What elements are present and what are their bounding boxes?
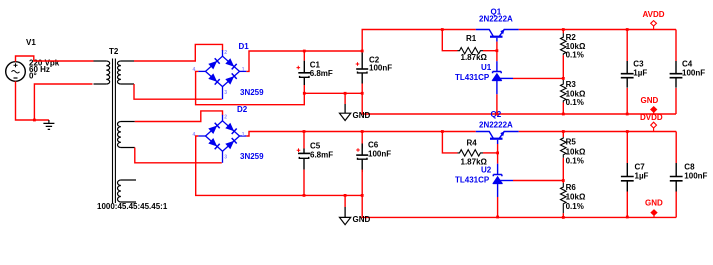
resistor R6 zigzag	[561, 183, 567, 213]
wire R1 to Q1 base junction	[483, 50, 497, 52]
resistor R5 top lead	[562, 132, 564, 138]
svg-text:C8: C8	[684, 162, 695, 171]
wire R4 to Q2 base junction	[483, 152, 498, 154]
wire D1 pin1 to positive rail	[246, 51, 362, 71]
svg-text:U1: U1	[481, 63, 492, 72]
wire Q2 base down to U2	[497, 153, 499, 164]
wire R1 drop from rail	[442, 30, 457, 51]
svg-text:2N2222A: 2N2222A	[479, 120, 513, 129]
resistor R4 zigzag	[458, 150, 484, 156]
diode D1 c	[208, 73, 217, 82]
T2 secondary 3 coil (unconnected stubs)	[121, 180, 136, 202]
T2 primary coil	[94, 61, 107, 84]
T2 secondary 2 coil	[121, 122, 135, 148]
svg-text:1µF: 1µF	[635, 172, 649, 181]
capacitor C8 plates	[670, 177, 683, 181]
svg-text:GND: GND	[353, 215, 371, 224]
C2 polarity plus	[356, 62, 360, 66]
V1 plus sign	[14, 63, 18, 67]
resistor R3 top lead	[562, 78, 564, 80]
svg-text:1000:45.45:45.45:1: 1000:45.45:45.45:1	[97, 202, 168, 211]
junction V1 return	[33, 119, 36, 122]
svg-text:3N259: 3N259	[240, 152, 264, 161]
svg-text:C4: C4	[682, 59, 693, 68]
diode D2 c	[208, 138, 217, 147]
wire negative rail section1	[304, 93, 676, 114]
svg-text:100nF: 100nF	[369, 63, 392, 72]
R2 bottom lead	[562, 55, 564, 78]
capacitor C2 plates	[356, 68, 368, 70]
svg-text:100nF: 100nF	[684, 172, 707, 181]
svg-text:GND: GND	[353, 111, 371, 120]
pin stub D2.1	[240, 135, 247, 137]
V1 sine squiggle	[12, 71, 20, 74]
pin stub D2.4	[198, 135, 205, 137]
ground symbol GND1 triangle	[340, 113, 351, 120]
svg-text:100nF: 100nF	[368, 150, 391, 159]
diode D2 a	[208, 126, 217, 135]
pin stub D1.4	[198, 70, 205, 72]
transistor Q1 base lead	[496, 38, 498, 42]
wire R4 drop from rail	[442, 132, 457, 153]
capacitor C4 plates	[670, 74, 683, 78]
T2 core lines	[113, 59, 116, 204]
wire D1 pin4 to negative rail	[196, 71, 305, 104]
wire Q2 emitter rail to DVDD frame	[519, 131, 677, 133]
svg-text:0.1%: 0.1%	[566, 202, 584, 211]
U2 reference tab	[498, 180, 513, 182]
capacitor C1 plates	[298, 72, 310, 74]
transistor Q1 base bar	[490, 36, 503, 38]
wire D2 pin1 to positive rail section2	[246, 132, 475, 137]
capacitor C2 leads	[361, 53, 363, 70]
pin stub D2.2	[222, 115, 224, 121]
wire Q1 base down to U1	[496, 51, 498, 62]
bridge rectifier D1 3N259 diamond outline	[206, 56, 240, 86]
svg-text:D2: D2	[237, 105, 248, 114]
svg-text:1µF: 1µF	[633, 68, 647, 77]
wire V1 minus down and to ground	[16, 81, 49, 120]
pin stub D1.2	[222, 50, 224, 56]
wire secondary1 bottom to D1 pin3	[134, 84, 222, 99]
wire V1 plus to transformer primary top	[16, 56, 94, 62]
svg-text:3N259: 3N259	[240, 88, 264, 97]
wire right frame down (C8 column)	[675, 132, 677, 164]
capacitor C3 leads	[626, 30, 628, 62]
capacitor C1 leads	[303, 51, 305, 61]
U2 anode lead	[497, 183, 499, 197]
U1 anode bar	[492, 79, 502, 81]
transistor Q2 emitter with arrow	[499, 132, 518, 139]
diode D1 b	[225, 58, 234, 66]
C5 polarity plus	[297, 148, 301, 152]
T2 secondary 1 coil	[121, 61, 134, 84]
svg-text:0.1%: 0.1%	[566, 98, 584, 107]
shunt regulator U1 cathode lead	[496, 61, 498, 71]
bridge rectifier D2 3N259 diamond outline	[206, 121, 240, 151]
diode D2 d	[225, 141, 234, 150]
capacitor C6 plates	[356, 154, 368, 156]
capacitor C6 leads	[361, 132, 363, 149]
U2 anode bar	[493, 182, 503, 184]
svg-text:C5: C5	[310, 141, 321, 150]
svg-text:GND: GND	[645, 199, 663, 208]
transistor Q2 base lead	[497, 140, 499, 144]
wire transformer primary bottom return	[34, 84, 92, 120]
pin stub D1.1	[240, 70, 247, 72]
svg-text:3: 3	[224, 90, 227, 96]
wire secondary1 top to D1 pin2	[134, 44, 223, 61]
diode D1 d	[225, 76, 234, 85]
svg-text:TL431CP: TL431CP	[455, 176, 490, 185]
svg-text:4: 4	[193, 67, 196, 73]
wire negative rail section2 to gnd run	[362, 195, 676, 217]
net connector GND (section2) filled diamond	[651, 210, 657, 216]
U1 reference tab	[497, 77, 513, 79]
diode D2 b	[225, 123, 234, 132]
C6 polarity plus	[356, 148, 360, 152]
net connector DVDD diamond	[651, 122, 657, 128]
R5 bottom lead	[562, 158, 564, 181]
svg-text:10kΩ: 10kΩ	[566, 193, 586, 202]
svg-text:1: 1	[242, 67, 245, 73]
ground symbol GND2 triangle	[340, 217, 351, 224]
transistor Q2 collector lead	[476, 132, 494, 139]
net connector AVDD diamond	[651, 21, 657, 26]
resistor R2 zigzag	[561, 33, 567, 55]
resistor R5 zigzag	[561, 137, 567, 158]
wire Q1 emitter rail to AVDD frame	[519, 29, 676, 31]
wire right frame down (C4 column)	[675, 30, 677, 62]
svg-text:10kΩ: 10kΩ	[566, 147, 586, 156]
R6 bottom lead	[562, 213, 564, 217]
capacitor C5 plates	[298, 152, 310, 154]
wire secondary2 bottom to D2 pin3	[135, 148, 222, 163]
svg-text:GND: GND	[641, 96, 659, 105]
source V1 circle	[6, 62, 26, 82]
svg-text:D1: D1	[239, 42, 250, 51]
svg-text:U2: U2	[481, 166, 492, 175]
R3 bottom lead	[562, 103, 564, 115]
U2 anode triangle	[493, 177, 502, 184]
wire positive rail step up section1	[362, 30, 476, 52]
svg-text:0.1%: 0.1%	[566, 157, 584, 166]
svg-text:V1: V1	[26, 38, 36, 47]
svg-text:10kΩ: 10kΩ	[566, 89, 586, 98]
ground symbol GND2 stem	[344, 195, 346, 207]
svg-text:C3: C3	[633, 59, 644, 68]
svg-text:100nF: 100nF	[682, 68, 705, 77]
svg-text:R3: R3	[566, 80, 577, 89]
capacitor C3 plates	[621, 74, 634, 78]
svg-text:0.1%: 0.1%	[566, 50, 584, 59]
svg-text:2N2222A: 2N2222A	[479, 15, 513, 24]
capacitor C7 leads	[626, 132, 628, 164]
svg-text:DVDD: DVDD	[640, 113, 663, 122]
svg-text:2: 2	[224, 50, 227, 56]
U2 cathode bar	[493, 175, 502, 177]
svg-text:6.8mF: 6.8mF	[310, 151, 333, 160]
wire D2 pin4 to negative rail section2	[196, 136, 363, 195]
resistor R3 zigzag	[561, 80, 567, 103]
capacitor C5 leads	[303, 132, 305, 149]
wire U2 ref to divider	[513, 180, 563, 182]
resistor R1 zigzag	[458, 48, 484, 54]
svg-text:R5: R5	[566, 138, 577, 147]
pin stub D1.3	[222, 87, 224, 100]
svg-text:2: 2	[224, 114, 227, 120]
U1 anode triangle	[492, 74, 501, 81]
net connector GND (section1) filled diamond	[651, 107, 657, 113]
svg-text:C7: C7	[635, 162, 646, 171]
svg-text:R1: R1	[466, 34, 477, 43]
svg-text:3: 3	[224, 154, 227, 160]
svg-text:1.87kΩ: 1.87kΩ	[461, 53, 488, 62]
transistor Q2 base bar	[490, 138, 503, 140]
svg-text:1: 1	[242, 132, 245, 138]
transistor Q1 collector lead	[476, 30, 494, 37]
capacitor C7 plates	[621, 177, 634, 181]
resistor R6 top lead	[562, 181, 564, 184]
transistor Q1 emitter with arrow	[499, 30, 519, 37]
svg-text:TL431CP: TL431CP	[455, 73, 490, 82]
diode D1 a	[208, 61, 217, 70]
ground (3-bar) at source	[48, 120, 50, 123]
U1 anode lead	[496, 80, 498, 94]
svg-text:C6: C6	[368, 140, 379, 149]
wire secondary2 top to D2 pin2	[135, 111, 223, 122]
pin stub D2.3	[222, 151, 224, 163]
svg-text:AVDD: AVDD	[643, 10, 665, 19]
wire U1 ref to divider	[513, 77, 563, 79]
resistor R2 top lead	[562, 30, 564, 34]
U1 cathode bar	[493, 72, 502, 74]
V1 minus sign	[14, 77, 18, 79]
svg-text:R4: R4	[467, 139, 478, 148]
svg-text:R2: R2	[566, 33, 577, 42]
svg-text:0°: 0°	[29, 72, 37, 81]
svg-text:4: 4	[193, 132, 196, 138]
ground symbol GND1 stem	[344, 93, 346, 104]
shunt regulator U2 cathode lead	[497, 164, 499, 175]
svg-text:R6: R6	[566, 183, 577, 192]
svg-text:T2: T2	[109, 47, 119, 56]
svg-text:6.8mF: 6.8mF	[310, 69, 333, 78]
C1 polarity plus	[297, 66, 301, 70]
